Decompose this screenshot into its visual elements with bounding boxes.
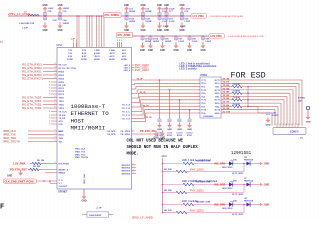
svg-text:ETHERNET TO: ETHERNET TO (71, 110, 110, 117)
svg-text:TCT3: TCT3 (201, 100, 206, 102)
svg-text:7: 7 (76, 41, 77, 43)
svg-text:47NF: 47NF (187, 134, 193, 137)
svg-text:47NF: 47NF (167, 134, 173, 137)
svg-text:GND: GND (187, 50, 192, 52)
svg-text:4: 4 (55, 62, 56, 65)
svg-text:/PAD_TDO: /PAD_TDO (75, 153, 86, 156)
svg-text:GND: GND (164, 5, 169, 7)
svg-text:NK_R36: NK_R36 (164, 169, 173, 171)
svg-text:GND: GND (140, 30, 145, 32)
svg-text:TXD0: TXD0 (59, 97, 65, 99)
svg-text:TD_9P: TD_9P (146, 117, 153, 119)
svg-text:B.5V: B.5V (82, 56, 87, 58)
svg-text:7.5V: 7.5V (68, 53, 73, 55)
svg-text:RG_ETH_RXCTL: RG_ETH_RXCTL (22, 77, 44, 81)
svg-text:RG_ETH_TXD1: RG_ETH_TXD1 (22, 103, 42, 107)
svg-text:INC_OFB: INC_OFB (215, 204, 226, 207)
svg-text:GRN_5R03: GRN_5R03 (222, 208, 233, 210)
svg-text:1000PF: 1000PF (272, 115, 280, 117)
svg-text:2: 2 (133, 166, 134, 168)
svg-text:1: 1 (198, 106, 199, 108)
svg-text:100NF: 100NF (129, 21, 136, 23)
svg-text:1: 1 (119, 40, 120, 42)
svg-text:AVJ1: AVJ1 (109, 55, 115, 58)
svg-text:2P5V_LF_AVDD: 2P5V_LF_AVDD (132, 216, 153, 219)
svg-text:B.5V: B.5V (82, 53, 87, 55)
svg-text:RESVD4: RESVD4 (122, 173, 131, 176)
svg-text:TD_3M: TD_3M (223, 88, 230, 90)
svg-text:39.TX_5R03: 39.TX_5R03 (232, 194, 244, 196)
svg-text:INC_OFB: INC_OFB (215, 184, 226, 187)
svg-text:HOST: HOST (71, 117, 85, 124)
svg-text:NK_R36: NK_R36 (164, 210, 173, 212)
svg-text:1: 1 (198, 109, 199, 111)
svg-text:GND_CAP: GND_CAP (83, 173, 86, 184)
svg-text:e.1.4.9%/9/9.9.9/9.7/8.14.9/9.: e.1.4.9%/9/9.9.9/9.7/8.14.9/9.9.7.5% (228, 35, 264, 38)
svg-text:1: 1 (198, 103, 199, 105)
svg-text:3: 3 (55, 140, 56, 142)
svg-text:/PAD_TDOTH: /PAD_TDOTH (75, 156, 89, 159)
svg-text:1: 1 (198, 83, 199, 85)
svg-text:RG_ETH_TXD0: RG_ETH_TXD0 (22, 106, 42, 110)
svg-text:3: 3 (55, 130, 56, 132)
svg-text:GND: GND (306, 122, 311, 124)
svg-text:GND: GND (160, 50, 165, 52)
svg-text:1.0UF: 1.0UF (192, 41, 199, 43)
svg-text:TXD1: TXD1 (59, 101, 65, 103)
svg-text:100NF: 100NF (63, 8, 70, 10)
svg-text:X_O: X_O (59, 180, 64, 182)
svg-text:CA_SPD: CA_SPD (107, 133, 116, 136)
svg-text:TD_5M: TD_5M (223, 95, 230, 97)
svg-text:5: 5 (55, 162, 56, 164)
svg-text:F24/LD/M2P: F24/LD/M2P (89, 214, 102, 217)
svg-text:RXC2: RXC2 (59, 91, 65, 93)
svg-text:TO_X_A: TO_X_A (122, 103, 131, 106)
svg-text:GND: GND (42, 30, 47, 32)
svg-text:H16068NL: H16068NL (203, 116, 214, 118)
svg-text:PHY_LED2: PHY_LED2 (190, 209, 204, 213)
svg-text:TDI: TDI (59, 141, 63, 143)
svg-text:4: 4 (55, 76, 56, 79)
svg-text:2.5V: 2.5V (68, 56, 73, 58)
svg-text:100NF: 100NF (129, 11, 136, 13)
svg-text:GPENET: GPENET (58, 192, 68, 194)
svg-text:3: 3 (55, 137, 56, 139)
svg-text:1: 1 (198, 90, 199, 92)
svg-text:1: 1 (121, 40, 122, 42)
svg-text:6: 6 (292, 124, 293, 126)
svg-text:MCT3: MCT3 (215, 100, 220, 102)
svg-text:PTH06: PTH06 (298, 98, 306, 100)
svg-text:7.5V: 7.5V (68, 50, 73, 52)
svg-text:2P5V_LF_AVDD: 2P5V_LF_AVDD (8, 12, 31, 16)
svg-text:39.TX_5R03: 39.TX_5R03 (232, 173, 244, 175)
svg-text:9: 9 (55, 100, 56, 102)
svg-text:TD_10M: TD_10M (223, 111, 231, 113)
svg-text:2: 2 (280, 124, 281, 126)
svg-text:TO_X_D: TO_X_D (122, 115, 131, 117)
svg-text:MDIO: MDIO (59, 134, 65, 136)
svg-text:29.1K/0/32.14.9/9.9K.7/3.2.14.: 29.1K/0/32.14.9/9.9K.7/3.2.14.9% (210, 15, 243, 18)
svg-text:COL NOT USED BECAUSE WE: COL NOT USED BECAUSE WE (127, 140, 184, 144)
svg-text:1.8V_PMA: 1.8V_PMA (13, 162, 26, 166)
svg-text:GND: GND (173, 50, 178, 52)
svg-text:GND: GND (140, 5, 145, 7)
svg-text:2: 2 (133, 172, 134, 174)
svg-text:/PAD_TDOTH: /PAD_TDOTH (3, 140, 20, 144)
svg-text:PHY_LED1: PHY_LED1 (190, 189, 204, 193)
svg-text:MCT1: MCT1 (215, 80, 220, 82)
svg-text:GND: GND (164, 30, 169, 32)
svg-text:1: 1 (198, 113, 199, 115)
svg-text:GND: GND (266, 125, 271, 127)
svg-text:4: 4 (55, 66, 56, 69)
svg-text:/PAD_TCK: /PAD_TCK (75, 150, 86, 153)
svg-text:GRN_5R03: GRN_5R03 (222, 188, 233, 190)
svg-text:C104: C104 (153, 38, 159, 41)
svg-text:RX_ER: RX_ER (59, 85, 66, 87)
svg-text:RX_CLK: RX_CLK (59, 64, 68, 66)
svg-text:CLKOUT: CLKOUT (59, 186, 68, 188)
svg-text:1: 1 (198, 93, 199, 95)
svg-text:3P3V: 3P3V (162, 156, 168, 158)
svg-text:75.0HM: 75.0HM (233, 97, 240, 99)
svg-text:DVDD: DVDD (81, 59, 87, 61)
svg-text:9: 9 (55, 96, 56, 98)
svg-text:PAM750A: PAM750A (244, 159, 254, 162)
svg-text:2: 2 (49, 115, 50, 117)
svg-text:B.5AV: B.5AV (94, 52, 101, 55)
svg-text:1.0UF: 1.0UF (48, 8, 55, 10)
svg-text:GND: GND (157, 129, 162, 131)
svg-text:GND: GND (177, 129, 182, 131)
svg-text:RESVD2: RESVD2 (122, 168, 131, 170)
svg-text:7: 7 (295, 124, 296, 126)
svg-text:GND: GND (148, 50, 153, 52)
svg-text:1: 1 (198, 100, 199, 102)
svg-text:1.0UF: 1.0UF (169, 21, 176, 23)
svg-text:GRN_5R03: GRN_5R03 (222, 167, 233, 169)
svg-text:MX3+: MX3+ (215, 103, 221, 105)
svg-text:8: 8 (49, 82, 50, 84)
svg-text:GND: GND (124, 30, 129, 32)
svg-text:RXD0: RXD0 (59, 71, 65, 73)
svg-text:47NF: 47NF (177, 134, 183, 137)
svg-text:2.2K/OHM C38: 2.2K/OHM C38 (19, 23, 35, 25)
svg-text:39.TX_5R03: 39.TX_5R03 (232, 214, 244, 216)
svg-text:/PAD_CLK: /PAD_CLK (3, 129, 16, 133)
svg-text:1.0UF: 1.0UF (163, 26, 169, 28)
svg-text:GND: GND (81, 201, 86, 203)
svg-text:TCT1: TCT1 (201, 80, 206, 82)
svg-text:1.1V_PMA: 1.1V_PMA (192, 15, 204, 18)
svg-text:9: 9 (55, 103, 56, 105)
svg-text:TO_X_C: TO_X_C (122, 111, 131, 113)
svg-text:2: 2 (49, 118, 50, 120)
svg-text:TD_3P: TD_3P (140, 92, 147, 94)
svg-text:AVDD: AVDD (94, 58, 100, 61)
svg-text:TXD2: TXD2 (59, 104, 65, 106)
svg-text:GND: GND (187, 129, 192, 131)
svg-text:PHY_LED0: PHY_LED0 (190, 168, 204, 172)
svg-text:75.0HM: 75.0HM (233, 84, 240, 86)
svg-text:4: 4 (55, 73, 56, 76)
svg-text:RESVD3: RESVD3 (122, 171, 131, 173)
svg-text:RXC1: RXC1 (59, 88, 65, 90)
svg-text:1: 1 (198, 86, 199, 88)
svg-text:GND: GND (157, 30, 162, 32)
svg-text:GND: GND (179, 5, 184, 7)
svg-text:ETH_AVDD: ETH_AVDD (118, 34, 131, 37)
svg-text:NK_RB: NK_RB (37, 160, 45, 162)
svg-text:100NF: 100NF (145, 21, 152, 23)
svg-text:MODE.: MODE. (127, 153, 139, 157)
svg-text:MX2+: MX2+ (215, 93, 221, 95)
svg-text:GND: GND (57, 5, 62, 7)
svg-text:12901551: 12901551 (231, 152, 252, 156)
svg-text:/PAD_TX8: /PAD_TX8 (3, 133, 16, 137)
svg-text:RG_ETH_TXD2: RG_ETH_TXD2 (22, 99, 42, 103)
svg-text:GND: GND (157, 5, 162, 7)
svg-text:GND: GND (167, 129, 172, 131)
svg-text:RG_ETH_RXD2: RG_ETH_RXD2 (22, 66, 42, 70)
svg-text:TX_ER: TX_ER (59, 118, 66, 120)
svg-text:GND: GND (7, 175, 12, 177)
svg-text:NK_R36: NK_R36 (164, 190, 173, 192)
svg-text:PD_ETH_PHI: PD_ETH_PHI (140, 129, 156, 133)
svg-text:F: F (0, 204, 4, 212)
svg-text:CON8 X: CON8 X (290, 131, 299, 133)
svg-text:INT_PHDN: INT_PHDN (59, 163, 70, 165)
svg-text:8: 8 (298, 124, 299, 126)
svg-text:TD_8M: TD_8M (223, 105, 230, 107)
svg-text:RXD1: RXD1 (59, 75, 65, 77)
svg-text:CA_SPD: CA_SPD (107, 130, 116, 133)
svg-text:1.5AV: 1.5AV (94, 49, 100, 52)
svg-text:4: 4 (55, 69, 56, 72)
svg-text:/PAD_CLK: /PAD_CLK (75, 148, 86, 151)
svg-text:R26 BAS_OHM: R26 BAS_OHM (196, 160, 211, 163)
svg-text:TD_9M: TD_9M (223, 108, 230, 110)
svg-text:1.0UF: 1.0UF (22, 27, 29, 29)
svg-text:TD_4M: TD_4M (223, 91, 230, 94)
svg-text:RXD3: RXD3 (59, 82, 65, 84)
svg-text:2: 2 (49, 124, 50, 126)
svg-text:CLK_ENB_ENET_PCH8: CLK_ENB_ENET_PCH8 (5, 180, 35, 184)
svg-text:75.0HM: 75.0HM (233, 104, 240, 106)
svg-text:100NF: 100NF (165, 41, 172, 43)
svg-text:MX1+: MX1+ (215, 83, 221, 85)
svg-text:TD_0M: TD_0M (223, 78, 230, 80)
svg-text:SHOULD NOT RUN IN HALF DUPLEX: SHOULD NOT RUN IN HALF DUPLEX (127, 146, 199, 150)
svg-text:1.0UF: 1.0UF (205, 41, 212, 43)
svg-text:2: 2 (49, 121, 50, 123)
svg-text:GND: GND (57, 30, 62, 32)
svg-text:TD_7M: TD_7M (223, 102, 230, 104)
svg-text:X_I: X_I (59, 183, 63, 185)
svg-text:TX_EN: TX_EN (59, 115, 66, 117)
svg-text:TD3-: TD3- (201, 106, 206, 108)
svg-text:RG_ETH_RXD3: RG_ETH_RXD3 (22, 63, 42, 67)
svg-text:COL: COL (59, 124, 64, 126)
svg-text:5: 5 (289, 124, 290, 126)
svg-text:8: 8 (49, 94, 50, 96)
svg-text:RBIAS: RBIAS (59, 172, 66, 175)
svg-text:1: 1 (198, 80, 199, 82)
svg-text:GND: GND (42, 5, 47, 7)
svg-text:PK_RB: PK_RB (33, 166, 41, 168)
svg-text:TD_1M: TD_1M (223, 82, 230, 84)
svg-text:TD_2M: TD_2M (223, 85, 230, 87)
svg-text:100NF: 100NF (153, 41, 160, 43)
svg-text:1.5UF: 1.5UF (180, 26, 186, 28)
svg-text:100NF: 100NF (145, 11, 152, 13)
svg-text:1.0UF: 1.0UF (162, 21, 169, 23)
svg-text:100NF: 100NF (63, 23, 70, 25)
svg-text:FOR ESD: FOR ESD (231, 70, 266, 80)
svg-text:1.0V_PMA: 1.0V_PMA (210, 35, 222, 38)
svg-text:8: 8 (49, 85, 50, 87)
svg-text:GTX: GTX (59, 121, 64, 123)
svg-text:TMS: TMS (59, 138, 64, 140)
svg-text:2: 2 (133, 169, 134, 171)
svg-text:RXC3: RXC3 (59, 94, 65, 96)
svg-text:DVDD: DVDD (67, 59, 73, 61)
svg-text:PHY_LED2: PHY_LED2 (135, 68, 149, 72)
svg-text:U7H: U7H (57, 44, 62, 47)
svg-text:ETH_AVDDH: ETH_AVDDH (105, 14, 120, 17)
svg-text:TX_CLK: TX_CLK (59, 111, 68, 113)
svg-text:JT6B1: JT6B1 (200, 75, 208, 77)
svg-text:RG_ETH_RXD1: RG_ETH_RXD1 (22, 70, 42, 74)
svg-text:MCT2: MCT2 (215, 90, 220, 92)
svg-text:1.0UF: 1.0UF (178, 41, 185, 43)
svg-text:TO_X_E: TO_X_E (122, 118, 131, 120)
svg-text:GND: GND (264, 205, 269, 207)
svg-text:+1.9F: +1.9F (96, 207, 102, 209)
svg-text:TD1-: TD1- (201, 87, 206, 89)
svg-text:CA_SPD1: CA_SPD1 (120, 133, 130, 136)
svg-text:MX2-: MX2- (215, 96, 220, 98)
svg-text:RESVD1: RESVD1 (122, 165, 131, 167)
svg-text:LED_2: LED_2 (124, 70, 131, 72)
svg-text:R26 BAS_OHM: R26 BAS_OHM (196, 181, 211, 184)
svg-text:TCT2: TCT2 (201, 90, 206, 92)
svg-text:GND: GND (179, 30, 184, 32)
svg-text:MX4+: MX4+ (215, 112, 221, 115)
svg-text:1.0UF: 1.0UF (184, 21, 191, 23)
svg-text:GND: GND (124, 5, 129, 7)
svg-text:2: 2 (133, 164, 134, 166)
svg-text:1: 1 (117, 40, 118, 42)
svg-text:1.5V: 1.5V (82, 50, 87, 52)
svg-text:GND: GND (200, 50, 205, 52)
svg-text:RG_ETH_RXD0: RG_ETH_RXD0 (22, 73, 42, 77)
svg-text:3: 3 (55, 133, 56, 135)
svg-text:TD_0P: TD_0P (137, 78, 144, 80)
svg-text:7: 7 (73, 41, 74, 43)
svg-text:9: 9 (55, 107, 56, 109)
svg-text:TXD3: TXD3 (59, 108, 65, 110)
svg-text:RX_DV_RX_CTRL: RX_DV_RX_CTRL (59, 68, 77, 70)
svg-text:1: 1 (277, 124, 278, 126)
svg-text:GND: GND (140, 50, 145, 52)
svg-text:AVDD: AVDD (121, 58, 127, 61)
svg-text:CA_SPD0: CA_SPD0 (120, 130, 130, 133)
svg-text:RESET_A: RESET_A (59, 168, 69, 171)
svg-text:RXD2: RXD2 (59, 78, 65, 80)
svg-text:1000Base-T: 1000Base-T (71, 103, 106, 110)
svg-text:GND: GND (264, 164, 269, 166)
svg-text:PAM750A: PAM750A (244, 180, 254, 183)
svg-text:8: 8 (49, 88, 50, 90)
svg-text:R26 BAS_OHM: R26 BAS_OHM (196, 201, 211, 204)
svg-text:AVJJ: AVJJ (94, 55, 100, 58)
svg-text:PD_ETH_RST: PD_ETH_RST (10, 168, 27, 172)
svg-text:3: 3 (283, 124, 284, 126)
svg-text:PAM750A: PAM750A (244, 200, 254, 203)
svg-text:8: 8 (49, 91, 50, 93)
svg-text:GND: GND (264, 185, 269, 187)
svg-text:1.0AV: 1.0AV (109, 49, 115, 52)
svg-text:MDC: MDC (59, 131, 64, 133)
svg-text:MMII/RGMII: MMII/RGMII (71, 125, 106, 132)
svg-text:MX3-: MX3- (215, 106, 220, 108)
svg-text:RG_ETH_TXD3: RG_ETH_TXD3 (22, 96, 42, 100)
svg-text:AVJJ: AVJJ (109, 52, 115, 55)
svg-text:2: 2 (49, 111, 50, 113)
svg-text:INC_OFB: INC_OFB (215, 163, 226, 166)
svg-text:/PAD_TDO: /PAD_TDO (3, 136, 16, 140)
svg-text:75.0HM: 75.0HM (233, 91, 240, 93)
svg-text:1: 1 (198, 96, 199, 98)
svg-text:MX1-: MX1- (215, 87, 220, 89)
svg-text:TD2-: TD2- (201, 96, 206, 98)
svg-text:TO_X_B: TO_X_B (122, 108, 131, 110)
svg-text:LED_3 activity: LED_3 activity (180, 68, 198, 71)
svg-text:TD_6M: TD_6M (223, 98, 230, 100)
svg-text:AVDD: AVDD (109, 58, 115, 61)
